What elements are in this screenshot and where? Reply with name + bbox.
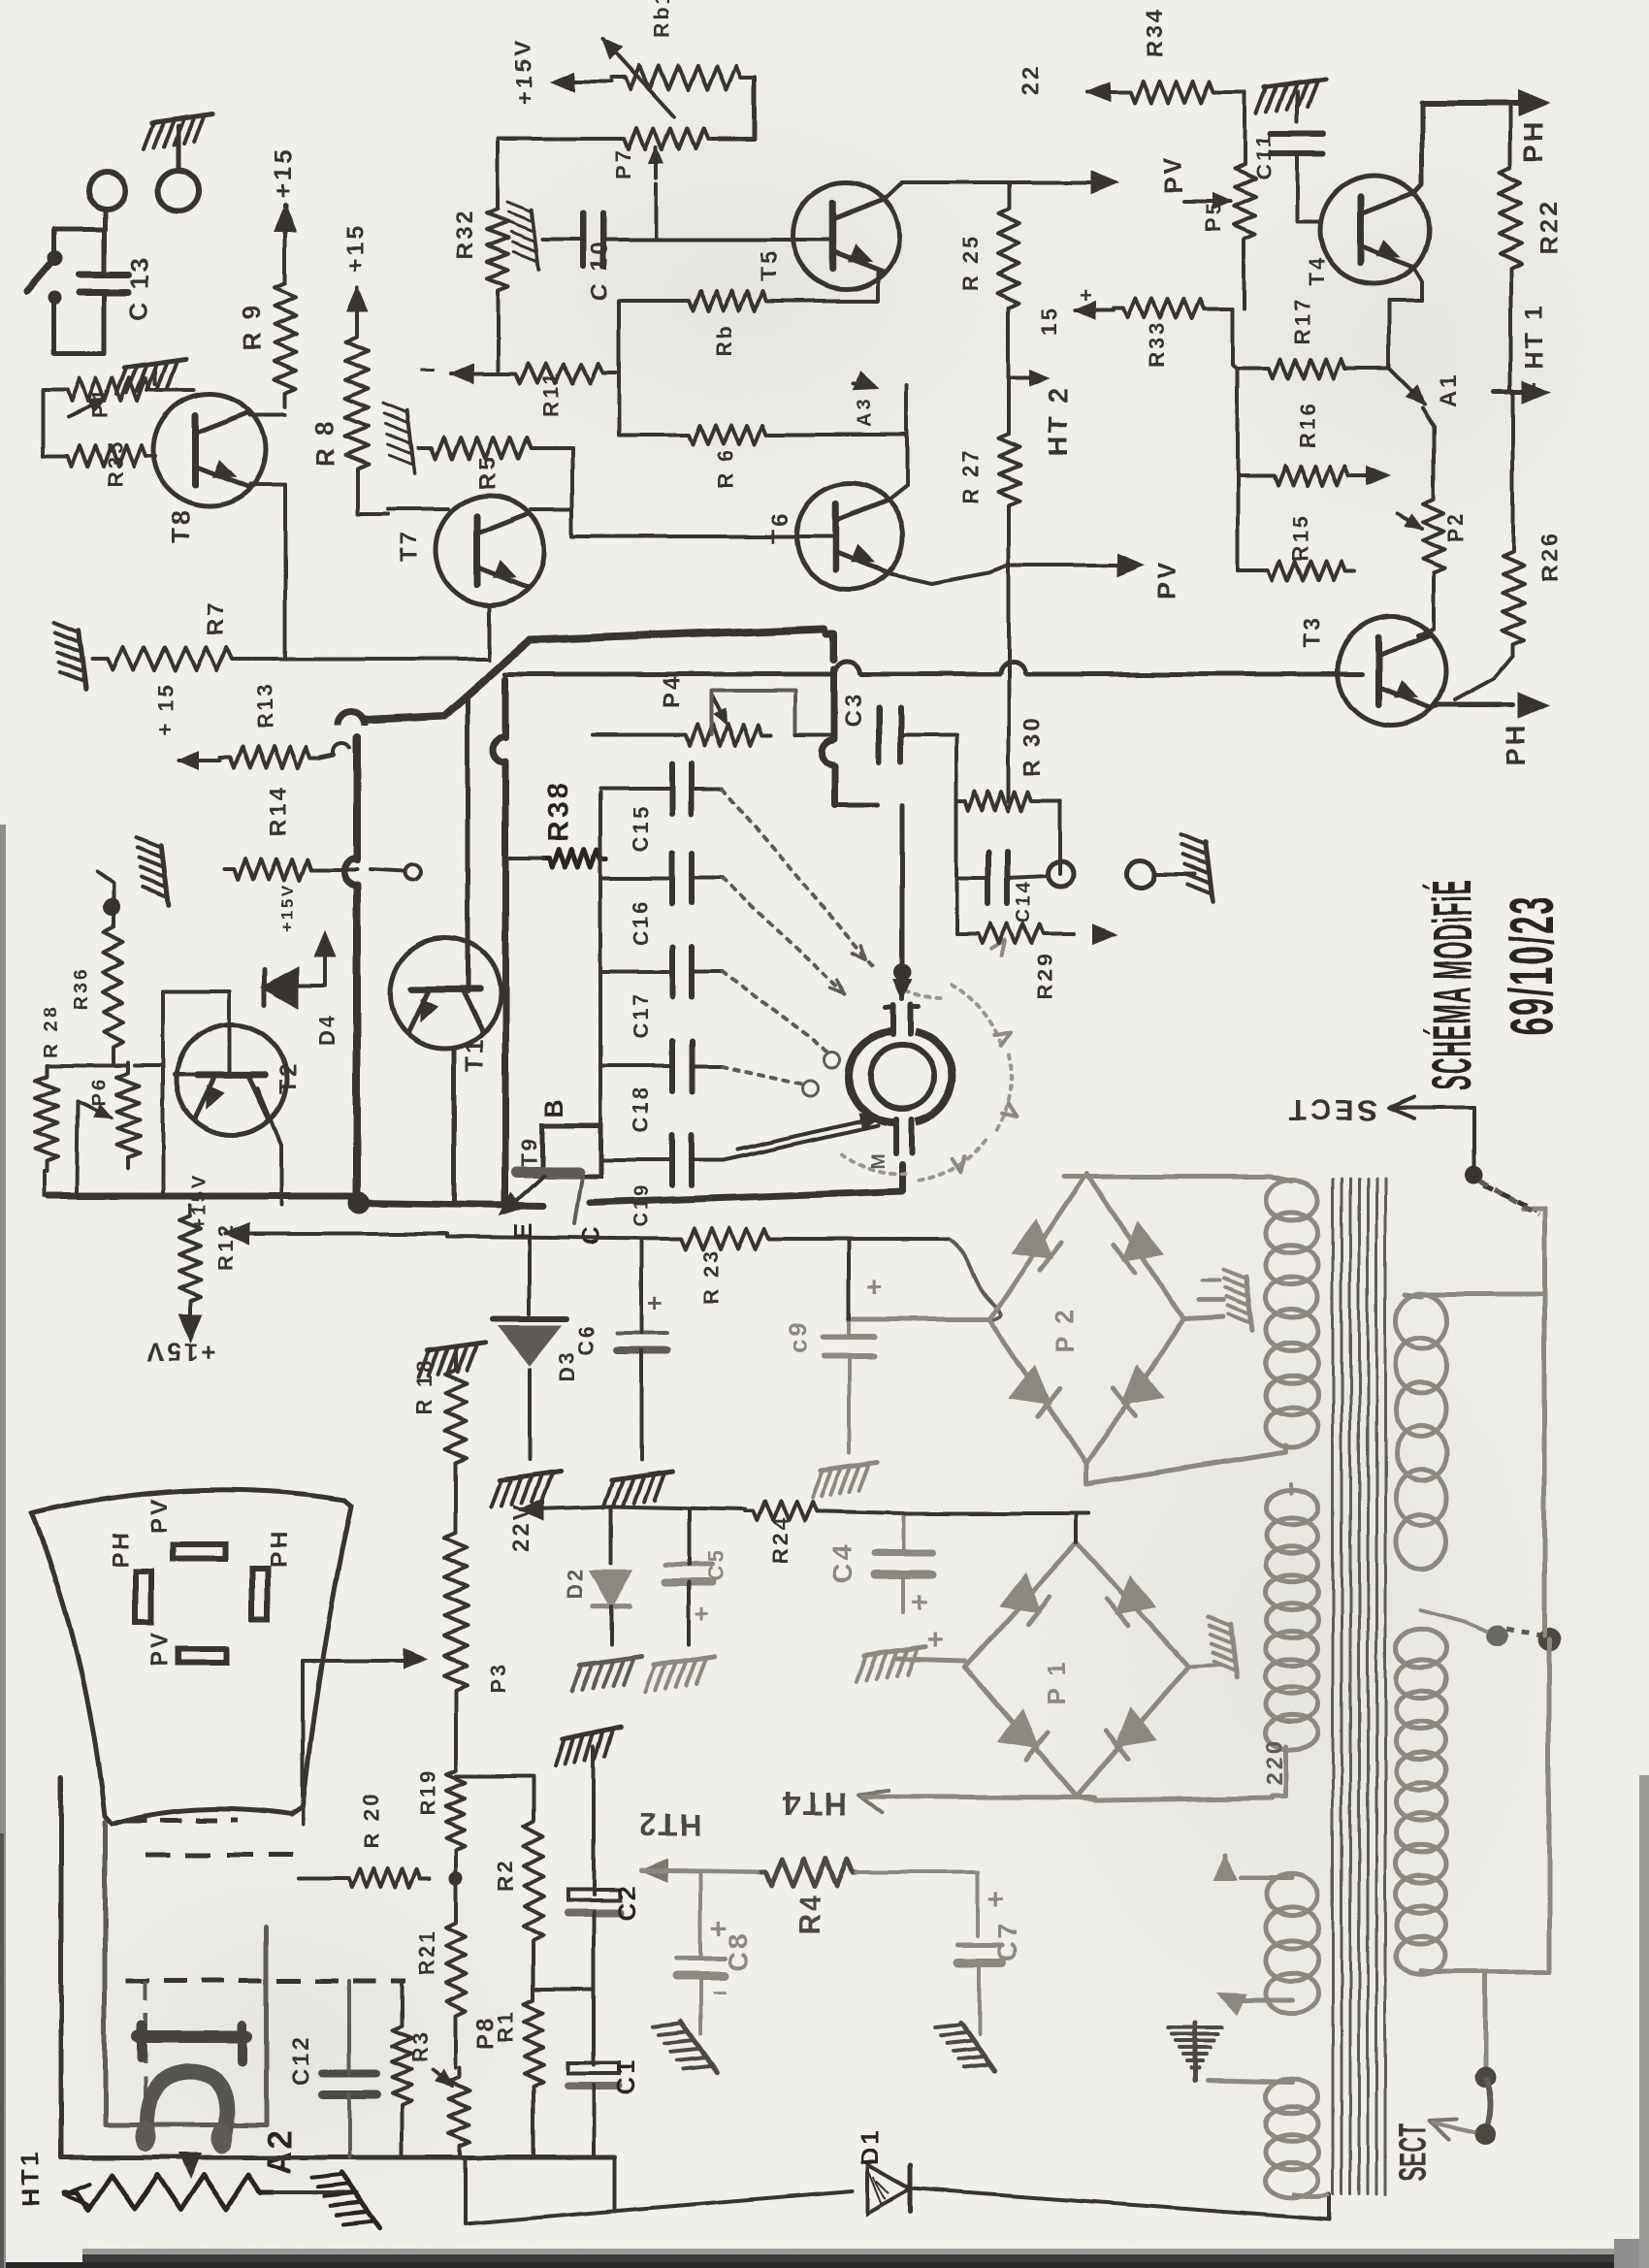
label + (C8) (710, 1913, 729, 1945)
rail dot (1537, 1628, 1561, 1651)
wire T7 down (488, 604, 492, 660)
wire C19 right (692, 1158, 723, 1162)
dial window 2 (136, 1571, 151, 1622)
wire T6 collector (889, 435, 907, 500)
ground G22 (P1 right) (1209, 1618, 1238, 1677)
wire bottom long b (910, 2188, 1329, 2219)
wire T2 base stub (175, 1073, 200, 1077)
wire C8 top (698, 1872, 702, 1959)
bus wire B (505, 672, 834, 677)
power arrow +15 (R8) (347, 287, 367, 310)
label +15V (Rb1) (511, 38, 537, 105)
SECT lever (1485, 2077, 1491, 2130)
harness diagonal 1 (723, 789, 873, 965)
resistor R13 (220, 747, 320, 768)
label C4 (827, 1542, 857, 1583)
resistor R3 vertical (392, 2016, 411, 2115)
ground G18 (C8) handwritten (653, 2022, 716, 2072)
switch contact ring a (803, 1081, 819, 1096)
wire C4 bottom (902, 1574, 906, 1612)
wire P6 wiper down (77, 1101, 78, 1193)
switch SW1 lever (27, 258, 62, 305)
transistor T1 (390, 938, 501, 1049)
P5 wiper arrow (1183, 194, 1230, 209)
label R18 (412, 1358, 436, 1414)
bridge P1 right wire (1188, 1665, 1220, 1667)
wire C9 top (847, 1239, 851, 1337)
wire C18 right (692, 1064, 723, 1068)
label B (T9) (539, 1096, 568, 1118)
label PH (dial) (108, 1530, 134, 1568)
wire C17 right (692, 970, 723, 974)
bridge P2 diamond (989, 1174, 1184, 1464)
wire C6 bottom (640, 1350, 644, 1460)
resistor R26 vertical (1503, 539, 1524, 656)
wire T5 emitter (878, 273, 885, 301)
resistor R22 vertical (1500, 155, 1521, 281)
resistor R15 (1259, 561, 1354, 580)
label +HT1 (1519, 302, 1548, 396)
scan bottom dark band (0, 2239, 1649, 2268)
capacitor C12 (322, 2073, 376, 2094)
transformer core (1333, 1179, 1385, 2194)
wire C12 bottom (347, 2094, 351, 2157)
label PH (dial right) (266, 1530, 292, 1568)
ground G11 (C9) (813, 1463, 877, 1498)
cartridge pole left (135, 2121, 156, 2152)
wire R9 top (283, 233, 287, 274)
label SECT bottom (1391, 2123, 1435, 2181)
capacitor C14 (988, 852, 1008, 904)
wire T1 collector up (466, 696, 470, 991)
resistor R5 (419, 437, 543, 459)
label R19 (415, 1768, 439, 1816)
resistor R1 vertical (524, 1990, 543, 2097)
label C7 (992, 1921, 1022, 1961)
wire C16 right (692, 876, 723, 880)
label M (switch) (868, 1150, 889, 1169)
arrow R13 left (179, 753, 220, 769)
label R8 (310, 418, 339, 466)
wire C9 bottom (847, 1356, 851, 1453)
resistor R18 vertical (445, 1358, 467, 1474)
capacitor C11 (1271, 134, 1323, 153)
arrow SECT bottom (1430, 2120, 1474, 2140)
wire R11/R32 junction (498, 320, 504, 373)
resistor R32 vertical (487, 199, 508, 301)
wire P4 left (593, 733, 676, 737)
resistor R19 vertical (446, 1761, 466, 1861)
wire P4 row (795, 733, 834, 737)
bridge P1 diode 4 (1107, 1710, 1154, 1758)
bridge P1 diode 3 (1001, 1712, 1049, 1760)
label P1 (bridge) (1042, 1659, 1071, 1705)
label D3 (555, 1349, 579, 1382)
wire C14 left (956, 801, 988, 878)
ground G6 (R7) (54, 622, 86, 690)
label C18 (629, 1085, 653, 1133)
label R36 (71, 966, 92, 1011)
label PV (T5) (1158, 154, 1187, 194)
bus hop 3 (835, 662, 860, 674)
potentiometer A2 handwritten (64, 2175, 274, 2210)
label A2 (262, 2127, 299, 2175)
wire +15V to Rb1 (561, 80, 611, 83)
arrow +15V row (225, 1224, 446, 1244)
label P2 (1443, 511, 1468, 543)
label Rb (713, 323, 737, 357)
rotary switch ring right (916, 1032, 952, 1121)
wire 22V row (611, 1507, 745, 1509)
power arrow +HT1 (1494, 381, 1548, 403)
wire G3 to C10 (543, 238, 580, 242)
label P8 (472, 2015, 499, 2049)
label R32 (452, 209, 478, 260)
label C2 (612, 1883, 641, 1921)
thick bus mid rail (493, 679, 505, 1205)
Rb1 wiper arrow (603, 39, 674, 116)
wire row to R23 (446, 1237, 670, 1239)
label R22 (1534, 199, 1563, 254)
dial wire to P3 (303, 1650, 425, 1668)
wire T8 collector (250, 413, 285, 417)
wire ring2 right (1154, 872, 1195, 876)
label R24 (768, 1516, 792, 1564)
resistor R20 (339, 1868, 430, 1888)
winding W3 bottom wire (1421, 1971, 1549, 1972)
label R23 (698, 1248, 723, 1305)
wire C10 right (603, 238, 789, 242)
transistor T7 (436, 496, 544, 604)
arrow left (R34) (1088, 83, 1119, 101)
resistor R2 vertical (524, 1806, 543, 1956)
transistor T4 (1320, 176, 1429, 284)
wire C6 top (640, 1239, 644, 1333)
arrow HT2 hw (642, 1860, 761, 1881)
arrow HT4 (859, 1791, 1094, 1813)
wire R28 top join (47, 1063, 128, 1067)
resistor R38 handwritten (543, 850, 606, 867)
junction R20 (449, 1871, 463, 1885)
wire R6 left (619, 433, 679, 437)
resistor R12 vertical (179, 1206, 201, 1312)
label E (T9) (508, 1220, 537, 1240)
label R33 (1145, 321, 1169, 369)
capacitor C16 (672, 853, 692, 903)
wire R2 bottom (532, 1956, 535, 1990)
ground G17 (C4) (856, 1647, 925, 1682)
wire G2 stub (153, 370, 157, 384)
resistor R33 (1114, 299, 1214, 318)
label A3 (855, 396, 876, 427)
wire R5 right down (543, 448, 572, 536)
label C11 (1251, 133, 1276, 179)
switch contact ring b (824, 1052, 840, 1067)
capacitor C1 (567, 2062, 620, 2086)
wire T4 emitter down (1413, 267, 1422, 301)
capacitor C8 (676, 1959, 725, 1976)
label R14 (266, 785, 292, 836)
ground G7 (R14) (137, 837, 169, 905)
label R20 (359, 1792, 383, 1848)
arrow R11 left (451, 365, 504, 382)
wire R21 bottom (454, 2027, 458, 2068)
bridge P1 left wire (896, 1659, 965, 1661)
wire T5 base (789, 238, 832, 242)
wire B to T3 b (1026, 672, 1362, 677)
label R12 (213, 1223, 238, 1271)
bridge P1 diode 1 (1003, 1576, 1051, 1624)
capacitor C3 (879, 708, 900, 762)
thick rail C3 (831, 669, 838, 739)
ground G20 (P2 right) (1224, 1270, 1253, 1331)
wire C3 rail down (954, 735, 958, 801)
dashed coupling 1 (126, 1818, 238, 1823)
T9 plate (517, 1166, 578, 1178)
dial window 1 (173, 1544, 225, 1559)
label HT2 hw (638, 1807, 702, 1842)
wire R11 right (614, 372, 619, 375)
bridge P2 diode 3 (1013, 1369, 1060, 1416)
resistor R28 vertical (35, 1065, 58, 1172)
transistor T2 (177, 1024, 287, 1135)
potentiometer P8 vertical (449, 2068, 470, 2157)
label R25 (958, 235, 983, 291)
label R21 (415, 1928, 439, 1976)
label minus (R11) (419, 353, 437, 385)
capacitor C18 (672, 1041, 692, 1091)
capacitor C19 (672, 1135, 692, 1185)
dashed coupling 4 (144, 1981, 147, 2120)
harness arrows (830, 945, 866, 993)
capacitor C7 (957, 1945, 1002, 1962)
transistor T6 (796, 483, 903, 590)
winding W3a (1396, 1294, 1446, 1570)
label C3 (841, 692, 867, 728)
arrow W4 top (1214, 1855, 1236, 1880)
power arrow +15 (R9) (275, 206, 296, 233)
transistor T8 (153, 394, 266, 506)
arrow HT2 tap (1009, 371, 1048, 385)
label Rb1 (650, 0, 674, 39)
diode D2 (592, 1507, 630, 1644)
arrow R16 right (1358, 467, 1389, 484)
wire R26 bottom to T3 (1455, 656, 1513, 700)
label R4 (794, 1893, 826, 1935)
wire jack to ground (177, 126, 181, 168)
ground G15 (D2) (572, 1657, 642, 1692)
resistor P4 (676, 725, 771, 746)
wire T2 loop left (161, 991, 165, 1196)
bus bottom mid (359, 1203, 543, 1206)
wire C2 bottom (592, 1912, 596, 2064)
wire C4 row to P1 (904, 1511, 1089, 1515)
SECT dot a (1474, 2066, 1496, 2088)
wire R8 bottom (357, 485, 388, 514)
wire C11 to T4 base (1297, 153, 1319, 221)
rotary switch ring left (849, 1031, 894, 1122)
capacitor C4 handwritten (875, 1553, 933, 1574)
wire R23 right (780, 1237, 950, 1241)
wire T6 emitter (889, 566, 1007, 583)
label C10 (587, 240, 613, 301)
label HT4 (780, 1785, 848, 1822)
winding W1 bottom wire (1284, 1445, 1289, 1452)
resistor R27 vertical (998, 425, 1019, 514)
label R38 (542, 780, 574, 842)
dial window 3 (252, 1569, 268, 1619)
rotary switch petals (842, 985, 1011, 1181)
thick bus corner right (826, 633, 834, 660)
label D2 (563, 1566, 587, 1599)
label R9 (237, 304, 266, 351)
label + (P1) (926, 1624, 946, 1656)
dial window 4 (178, 1649, 226, 1663)
label PV (dial low) (146, 1630, 173, 1667)
left rail R17-R15 (1238, 369, 1264, 570)
wire T4 collector up (1413, 103, 1422, 194)
label +15V (R12) (145, 1338, 215, 1367)
potentiometer P5 (1234, 155, 1255, 248)
hop C3 rail (822, 740, 834, 765)
label T6 (767, 510, 793, 543)
label C19 (631, 1183, 653, 1227)
label PV (dial) (146, 1496, 173, 1533)
wire P2 top (1422, 407, 1434, 490)
bridge P1 diode 2 (1107, 1578, 1154, 1626)
label C6 (574, 1323, 598, 1356)
winding W3b (1396, 1629, 1446, 1975)
wire R25 top (1007, 182, 1011, 196)
wire C4 top (902, 1513, 906, 1553)
wire T2 collector (163, 991, 230, 1077)
wire R2-C junction (533, 1988, 592, 1992)
label R1 (493, 2009, 517, 2042)
resistor R34 (1119, 81, 1224, 103)
label R6 (713, 448, 737, 490)
junction dot bus (348, 1192, 370, 1214)
connector J1 (158, 170, 199, 211)
wire C5 bottom (687, 1582, 691, 1644)
ground G19 (C7) handwritten (936, 2023, 994, 2070)
switch lever dashes top (1484, 1185, 1536, 1211)
label C8 (723, 1930, 753, 1971)
bridge P1 top wire (1077, 1513, 1089, 1542)
wire R30 right (1040, 801, 1059, 874)
wire R32 bottom (496, 301, 500, 320)
label R17 (1290, 297, 1314, 344)
winding W4 bottom wire (1241, 1998, 1292, 2003)
wire C8 bottom (698, 1976, 702, 2034)
bridge P2 top wire (1064, 1175, 1270, 1180)
wire R23 to bridge (950, 1239, 1001, 1321)
long wire T7-T6 (572, 535, 836, 538)
P8 wiper arrow (433, 2070, 452, 2086)
resistor R21 vertical (446, 1911, 466, 2027)
label HT2 (1043, 385, 1073, 456)
bus hop 2 (343, 858, 357, 885)
ground tree W5 (1168, 2023, 1222, 2081)
label T3 (1299, 615, 1325, 648)
cartridge pole right (211, 2122, 233, 2154)
label 220 (tap) (1262, 1737, 1288, 1785)
bridge P1 diamond (965, 1542, 1188, 1797)
wire R8 top (355, 291, 359, 320)
tap dot 220 (1486, 1625, 1507, 1646)
label c9 (784, 1319, 813, 1353)
resistor R24 (745, 1502, 824, 1521)
switch arrow into rotor (737, 1115, 878, 1150)
potentiometer Rb1 (611, 66, 755, 89)
ground G4 (R5) (383, 404, 415, 473)
minus marks (P2) (1200, 1280, 1224, 1300)
resistor R14 (225, 859, 320, 880)
T9 C lead (574, 1176, 582, 1224)
wire R19-R21 (454, 1861, 458, 1911)
switch wire down arrow (893, 805, 911, 999)
harness diagonal 5 (723, 1125, 878, 1160)
wire P5 bottom (1243, 248, 1246, 308)
label R15 (1288, 513, 1312, 561)
connector J2 (88, 172, 125, 209)
label R27 (958, 448, 983, 504)
wire C3 right (900, 733, 956, 737)
label T7 (397, 530, 423, 563)
winding W3a top wire (1405, 1294, 1421, 1296)
label R35 (103, 439, 127, 487)
label T2 (275, 1061, 302, 1094)
switch dot top (1466, 1167, 1483, 1184)
wire P2 bottom to T3 (1418, 582, 1434, 635)
label P3 (487, 1661, 511, 1693)
ground G12 (R18) (419, 1343, 485, 1377)
resistor R8 vertical (345, 320, 369, 485)
P1 wiper arrow (68, 400, 105, 417)
wire T7 collector left (388, 507, 448, 511)
bridge P1 bottom wire (1077, 1797, 1273, 1800)
label +15 (R8) (342, 223, 369, 272)
switch lever dashes (1505, 1628, 1540, 1636)
wire bus far left (42, 1172, 46, 1196)
bus hop 1 (338, 712, 365, 726)
wire W3a top left (1421, 1292, 1544, 1297)
winding W1 (1266, 1181, 1318, 1447)
transistor T5 (792, 182, 899, 289)
ground G1 (144, 114, 213, 149)
label R28 (40, 1005, 61, 1057)
arrow A1 (1389, 369, 1424, 404)
resistor R36 vertical (104, 912, 123, 1062)
label P2 (bridge) (1050, 1307, 1079, 1353)
wire R14 right (320, 864, 421, 880)
label + (C4) (912, 1587, 931, 1619)
winding W2 top wire (1290, 1484, 1294, 1494)
label +15 (R9) (268, 147, 297, 199)
wire SECT drop (1483, 1974, 1488, 2071)
wire J2 down (103, 209, 108, 229)
wire C18 left (600, 1064, 672, 1068)
label P6 (88, 1077, 110, 1106)
rotary switch SW2 rotor (870, 1045, 934, 1109)
dashed coupling 2 (145, 1853, 299, 1858)
tap wire 220 (1421, 1610, 1486, 1632)
label + (C5) (695, 1599, 711, 1628)
wire SECT to switch (1472, 1108, 1476, 1169)
switch lever top dashes (1480, 1182, 1538, 1215)
label R16 (1295, 401, 1319, 448)
wire R22 top (1508, 107, 1512, 155)
wire R29 left (956, 878, 970, 934)
